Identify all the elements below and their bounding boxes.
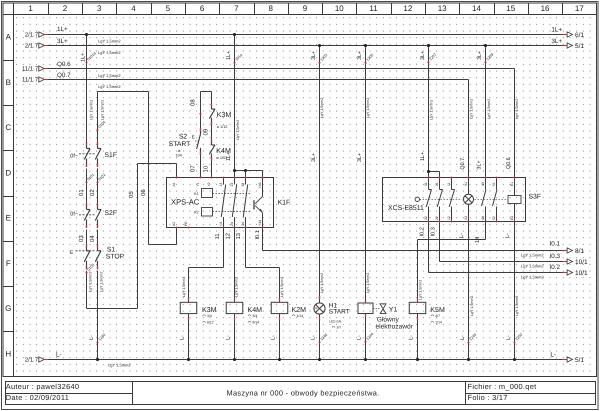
wire coil K5M to L- rail [409, 314, 420, 361]
svg-text:13: 13 [219, 183, 223, 187]
svg-text:Q0.6: Q0.6 [506, 157, 512, 169]
svg-text:S1: S1 [107, 247, 116, 254]
svg-text:LgY 1,5mm2: LgY 1,5mm2 [487, 99, 491, 119]
svg-text:S3F: S3F [529, 194, 541, 201]
svg-text:Y1: Y1 [196, 182, 200, 186]
svg-text:L-: L- [357, 335, 363, 340]
wire 3L+ drop to XCS contact 43 [476, 44, 494, 178]
svg-text:LgY 1,5mm2: LgY 1,5mm2 [418, 280, 422, 300]
svg-text:10/1: 10/1 [575, 270, 588, 277]
relay coil K1 inside XPS-AC [194, 189, 251, 198]
svg-text:S1F: S1F [105, 152, 117, 159]
svg-text:33: 33 [241, 183, 245, 187]
svg-text:XPS-AC: XPS-AC [171, 198, 200, 207]
contactor coil K2M [271, 302, 306, 318]
svg-text:6: 6 [200, 4, 205, 13]
wire L- from E2 to L- rail [505, 222, 524, 362]
svg-text:Y2: Y2 [207, 182, 211, 186]
svg-text:LgY 1,5mm2: LgY 1,5mm2 [108, 363, 131, 368]
svg-text:E: E [192, 134, 195, 139]
svg-text:LgY 1,5mm2: LgY 1,5mm2 [98, 73, 121, 78]
svg-text:I0.3: I0.3 [431, 227, 437, 236]
svg-text:LgY 1,5mm2: LgY 1,5mm2 [515, 296, 519, 316]
svg-text:LgY 1,5mm2: LgY 1,5mm2 [521, 275, 544, 280]
svg-text:8/1: 8/1 [575, 248, 584, 255]
node I0.1 folio reference 8/1 [563, 248, 585, 255]
svg-text:02: 02 [89, 189, 96, 196]
svg-text:L-: L- [311, 335, 317, 340]
svg-text:K5M: K5M [430, 306, 445, 314]
svg-text:K4M: K4M [248, 306, 263, 314]
svg-text:LgY 1,5mm2: LgY 1,5mm2 [429, 100, 433, 120]
node L- folio reference 2/1.7 left [25, 357, 47, 364]
svg-text:LgY 1,5mm2: LgY 1,5mm2 [236, 120, 240, 140]
node 3L+ folio reference 2/1.7 left [25, 43, 47, 50]
wire 1L+ rail [47, 26, 562, 43]
svg-text:LgY 1,5mm2: LgY 1,5mm2 [98, 50, 121, 55]
svg-text:1L+: 1L+ [551, 27, 562, 34]
svg-text:LgY 1,5mm2: LgY 1,5mm2 [470, 99, 474, 119]
svg-text:Maszyna nr 000 - obwody bezpie: Maszyna nr 000 - obwody bezpieczeństwa. [226, 389, 379, 398]
svg-text:A: A [6, 33, 12, 42]
NO contact 43-44 inside XCS [481, 178, 486, 222]
svg-text:I0.1: I0.1 [549, 241, 560, 248]
svg-text:10: 10 [202, 165, 209, 172]
svg-text:3/7: 3/7 [337, 326, 342, 330]
svg-text:31: 31 [424, 182, 428, 186]
start button S2 START (NO) [169, 128, 201, 157]
svg-text:3L+: 3L+ [357, 153, 363, 162]
svg-text:04: 04 [89, 235, 96, 242]
svg-text:F: F [6, 259, 11, 268]
svg-text:LgY 1,5mm2: LgY 1,5mm2 [521, 264, 544, 269]
svg-text:22: 22 [435, 216, 439, 220]
node L- folio reference 5/1 right [550, 351, 584, 364]
svg-text:7: 7 [234, 4, 239, 13]
svg-text:Q0.7: Q0.7 [57, 72, 71, 79]
svg-text:L-: L- [409, 335, 415, 340]
svg-text:12: 12 [403, 4, 412, 13]
svg-text:H: H [5, 349, 11, 358]
wire 05 from S1 to terminal A1 [85, 164, 176, 309]
wire from S1 channel 2 to L- rail [89, 271, 106, 361]
svg-text:LgY 1,5mm2: LgY 1,5mm2 [320, 98, 324, 118]
safety relay K1F XPS-AC [167, 178, 274, 228]
svg-text:11: 11 [215, 233, 221, 239]
wire 04 [89, 230, 98, 245]
node I0.2 folio reference 10/1 [563, 270, 589, 277]
svg-text:L-: L- [459, 233, 465, 238]
svg-text:3L+: 3L+ [57, 38, 68, 45]
svg-text:I0.1: I0.1 [255, 230, 261, 239]
svg-text:LgY 1,5mm2: LgY 1,5mm2 [100, 100, 104, 120]
svg-text:1L+: 1L+ [226, 152, 232, 161]
wire L- from X2 to L- rail [459, 222, 478, 362]
svg-text:3L+: 3L+ [476, 160, 482, 169]
svg-text:51: 51 [492, 182, 496, 186]
wire 13 from terminal 34 to coil K2M [236, 228, 284, 303]
svg-text:3/4: 3/4 [253, 314, 258, 318]
svg-text:13: 13 [236, 233, 242, 239]
svg-text:Folio : 3/17: Folio : 3/17 [468, 393, 508, 402]
svg-text:LgY 1,5mm2: LgY 1,5mm2 [98, 38, 121, 43]
svg-text:E2: E2 [510, 216, 514, 220]
svg-text:52: 52 [492, 216, 496, 220]
wire 08 (start loop upper link) [190, 92, 212, 129]
svg-text:14: 14 [472, 4, 481, 13]
svg-text:LgY 1,5mm2: LgY 1,5mm2 [88, 272, 92, 292]
wire Q0.6 drop to XCS E1 [506, 69, 519, 178]
svg-text:LgY 1,5mm2: LgY 1,5mm2 [366, 98, 370, 118]
contactor coil K5M [409, 302, 445, 324]
relay coil K2 inside XPS-AC [194, 208, 251, 217]
wire 02 [89, 169, 106, 204]
svg-text:1L+: 1L+ [226, 51, 232, 60]
svg-text:15: 15 [506, 4, 515, 13]
wire 3L+ drop to lamp H1 [311, 44, 328, 303]
svg-text:1: 1 [28, 4, 33, 13]
svg-text:44: 44 [481, 216, 485, 220]
safety contact 13-14 inside XPS-AC [219, 178, 226, 228]
svg-text:2: 2 [63, 4, 68, 13]
svg-text:L-: L- [180, 335, 186, 340]
svg-text:⌀ 1/12: ⌀ 1/12 [217, 125, 228, 129]
label K1F [278, 200, 291, 207]
wire 10 from K4M to terminal Y2 [202, 161, 211, 178]
svg-text:L-: L- [56, 351, 62, 358]
svg-text:3L+: 3L+ [311, 51, 317, 60]
svg-text:L-: L- [460, 335, 466, 340]
wire I0.1 from Y44 to folio 8/1 [263, 228, 563, 258]
svg-text:B: B [6, 78, 11, 87]
solenoid valve Y1 Glowny elektrozawor [358, 303, 414, 331]
wire I0.2 vertical label [419, 227, 425, 236]
NC contact 21-22 inside XCS [435, 178, 443, 222]
wire 07 from S2 to terminal Y1 [190, 155, 201, 178]
svg-text:8/12: 8/12 [207, 321, 214, 325]
svg-text:S2: S2 [179, 134, 188, 141]
svg-text:STOP: STOP [106, 254, 125, 261]
wire 11 from terminal 14 to coil K3M [182, 228, 223, 303]
svg-text:2/1.7: 2/1.7 [25, 357, 39, 364]
key actuator inside XCS [415, 197, 507, 201]
svg-text:24: 24 [230, 222, 234, 226]
svg-text:2/1.7: 2/1.7 [25, 43, 39, 50]
svg-text:X2: X2 [464, 216, 468, 220]
svg-text:LgY 1,5mm2: LgY 1,5mm2 [366, 273, 370, 293]
svg-text:Fichier : m_000.qet: Fichier : m_000.qet [468, 382, 537, 391]
svg-text:LgY 1,5mm2: LgY 1,5mm2 [98, 84, 121, 89]
svg-text:0f~: 0f~ [70, 211, 78, 217]
svg-text:Auteur : pawel32640: Auteur : pawel32640 [6, 382, 80, 391]
svg-text:8: 8 [268, 4, 273, 13]
wire 12 from terminal 24 to coil K4M [226, 228, 239, 303]
svg-text:I0.2: I0.2 [549, 264, 560, 271]
node 3L+ folio reference 5/1 right [551, 38, 584, 50]
svg-text:L-: L- [505, 233, 511, 238]
svg-text:13: 13 [438, 4, 447, 13]
wire solenoid Y1 to L- rail [357, 314, 375, 362]
svg-text:X1: X1 [464, 182, 468, 186]
svg-text:E1: E1 [510, 182, 514, 186]
wire lamp H1 to L- rail [311, 314, 329, 361]
svg-text:3L+: 3L+ [551, 38, 562, 45]
svg-text:K3M: K3M [217, 111, 232, 119]
svg-text:1/14: 1/14 [435, 321, 442, 325]
svg-text:01: 01 [78, 189, 85, 196]
svg-text:LgY 1,5mm2: LgY 1,5mm2 [320, 273, 324, 293]
safety switch S3F XCS-E8511 [383, 178, 526, 222]
svg-text:S2F: S2F [105, 210, 117, 217]
stop button S1 STOP (2 NC contacts) [70, 244, 125, 269]
wire 03 [78, 230, 87, 245]
svg-text:104: 104 [176, 154, 182, 158]
node 1L+ folio reference 2/1.7 left [25, 32, 47, 39]
svg-text:16: 16 [541, 4, 550, 13]
svg-text:L-: L- [506, 335, 512, 340]
svg-text:A1: A1 [172, 182, 176, 186]
wire 3L+ drop to solenoid valve Y1 [357, 44, 374, 303]
wire Q0.7 rail [47, 72, 468, 89]
svg-text:3L+: 3L+ [420, 51, 426, 60]
svg-text:LgY 1,5mm2: LgY 1,5mm2 [280, 277, 284, 297]
svg-text:3L+: 3L+ [357, 51, 363, 60]
svg-text:08: 08 [190, 99, 197, 106]
svg-text:LED GN: LED GN [329, 319, 342, 323]
svg-text:8/14: 8/14 [253, 321, 260, 325]
svg-text:11: 11 [447, 182, 451, 186]
wire coil K2M to L- rail [271, 314, 282, 361]
svg-text:9: 9 [303, 4, 308, 13]
wire 1L+ drop to XPS-AC terminals 23/33/Y43 [226, 33, 263, 178]
svg-text:5/1: 5/1 [575, 357, 584, 364]
NC aux contact K4M [209, 140, 231, 161]
wire L- rail [47, 351, 562, 367]
svg-text:LgY 1,5mm2: LgY 1,5mm2 [515, 99, 519, 119]
wire 3L+ drop to XCS terminals 31/21 [420, 44, 440, 178]
wire 14 from XCS contact 44 to coil K5M [418, 222, 486, 303]
svg-text:K2M: K2M [292, 306, 307, 314]
svg-text:LgY 1,5mm2: LgY 1,5mm2 [470, 296, 474, 316]
wire I0.3 from terminal 22 to folio 10/1 [440, 222, 563, 269]
NO contact 51-52 inside XCS [492, 178, 497, 222]
svg-text:17: 17 [575, 4, 584, 13]
node I0.3 folio reference 10/1 [563, 259, 589, 266]
svg-text:07: 07 [190, 165, 197, 172]
svg-text:3: 3 [97, 4, 102, 13]
svg-text:11: 11 [369, 4, 378, 13]
svg-text:3L+: 3L+ [477, 51, 483, 60]
svg-text:C: C [5, 123, 11, 132]
svg-text:PE: PE [184, 221, 188, 226]
svg-text:LgY 1,5mm2: LgY 1,5mm2 [521, 253, 544, 258]
contactor coil K3M [180, 302, 216, 324]
svg-text:Y44: Y44 [258, 220, 262, 226]
node Q0.6 folio reference 11/1.7 left [22, 66, 47, 73]
svg-text:L-: L- [271, 335, 277, 340]
svg-text:34: 34 [241, 222, 245, 226]
solenoid E1-E2 inside XCS [508, 178, 521, 222]
svg-text:START: START [329, 309, 350, 316]
svg-text:1L+: 1L+ [420, 152, 426, 161]
svg-text:05: 05 [128, 191, 135, 198]
svg-text:L-: L- [89, 335, 95, 340]
wire 3L+ rail [47, 38, 562, 55]
label S3F [529, 194, 541, 201]
wire 06 from S1F channel 2 to terminal A2 [96, 92, 176, 245]
svg-text:K2: K2 [194, 210, 199, 214]
indicator lamp H1 START [314, 296, 350, 330]
terminals of XPS-AC [172, 176, 264, 228]
svg-text:G: G [5, 304, 11, 313]
svg-text:43: 43 [481, 182, 485, 186]
NC aux contact K3M [209, 92, 231, 130]
wire I0.3 vertical label [431, 227, 437, 236]
svg-text:5: 5 [166, 4, 171, 13]
wire 1L+ drop to S1F channel 1 [81, 33, 98, 142]
terminals of XCS-E8511 [427, 176, 515, 222]
wire Q0.6 rail [47, 61, 514, 78]
svg-text:03: 03 [78, 235, 85, 242]
svg-text:3L+: 3L+ [311, 153, 317, 162]
svg-text:4/7: 4/7 [435, 314, 440, 318]
svg-text:L-: L- [226, 335, 232, 340]
svg-text:10/1: 10/1 [575, 259, 588, 266]
svg-text:2/1.7: 2/1.7 [25, 32, 39, 39]
wire 01 [78, 169, 95, 204]
wire I0.1 vertical label [255, 230, 261, 239]
svg-text:06: 06 [140, 189, 147, 196]
svg-text:Y1: Y1 [389, 307, 398, 314]
svg-text:LgY 1,5mm2: LgY 1,5mm2 [235, 277, 239, 297]
svg-text:6/1: 6/1 [575, 32, 584, 39]
svg-text:1L+: 1L+ [57, 26, 68, 33]
node Q0.7 folio reference 11/1.7 left [22, 77, 47, 84]
NC contact 31-32 inside XCS [424, 178, 432, 222]
svg-text:21: 21 [435, 182, 439, 186]
svg-text:09: 09 [203, 128, 210, 135]
svg-text:14: 14 [475, 237, 481, 243]
svg-text:14: 14 [219, 222, 223, 226]
node 1L+ folio reference 6/1 right [551, 27, 584, 39]
svg-text:Y43: Y43 [258, 182, 262, 188]
svg-text:Główny: Główny [377, 316, 400, 323]
svg-text:I0.2: I0.2 [419, 227, 425, 236]
svg-text:elektrozawór: elektrozawór [376, 324, 414, 331]
limit switch S1F (2 NC contacts) [70, 142, 117, 167]
svg-text:12: 12 [447, 216, 451, 220]
wire coil K4M to L- rail [226, 314, 237, 361]
svg-text:1L+: 1L+ [81, 53, 87, 62]
svg-text:0f~: 0f~ [70, 153, 78, 159]
transistor output Y43-Y44 inside XPS-AC [254, 178, 263, 228]
svg-text:Q0.6: Q0.6 [57, 61, 71, 68]
svg-text:K1: K1 [194, 192, 199, 196]
indicator lamp X1-X2 inside XCS [464, 178, 474, 222]
svg-text:4: 4 [131, 4, 136, 13]
svg-text:A2: A2 [172, 222, 176, 226]
wire I0.2 from terminal 32 to folio 10/1 [429, 222, 563, 280]
svg-text:11/1.7: 11/1.7 [22, 77, 39, 84]
svg-text:10: 10 [335, 4, 344, 13]
svg-text:12: 12 [226, 233, 232, 239]
safety contact 33-34 inside XPS-AC [241, 178, 248, 228]
svg-text:32: 32 [424, 216, 428, 220]
svg-text:K3M: K3M [202, 306, 217, 314]
svg-text:23: 23 [230, 183, 234, 187]
svg-text:K1F: K1F [278, 200, 291, 207]
limit switch S2F (2 NC contacts) [70, 203, 117, 228]
svg-text:LgY 1,5mm2: LgY 1,5mm2 [99, 272, 103, 292]
safety contact 23-24 inside XPS-AC [230, 178, 237, 228]
svg-text:LgY 1,5mm2: LgY 1,5mm2 [182, 277, 186, 297]
contactor coil K4M [226, 302, 262, 324]
svg-text:D: D [5, 168, 11, 177]
NC contact 11-12 inside XCS [447, 178, 455, 222]
svg-text:L-: L- [550, 351, 556, 358]
wire coil K3M to L- rail [180, 314, 191, 361]
svg-text:Date : 02/09/2011: Date : 02/09/2011 [6, 393, 69, 402]
svg-text:I0.3: I0.3 [549, 253, 560, 260]
svg-text:11/1.7: 11/1.7 [22, 66, 39, 73]
svg-text:LgY 1,5mm2: LgY 1,5mm2 [89, 100, 93, 120]
svg-text:3/4: 3/4 [207, 314, 212, 318]
svg-text:Q0.7: Q0.7 [460, 158, 466, 170]
svg-text:E: E [6, 214, 11, 223]
svg-text:5/1: 5/1 [575, 43, 584, 50]
wire Q0.7 drop to lamp X1 of XCS [460, 80, 474, 178]
svg-text:1/14: 1/14 [297, 314, 304, 318]
wire 09 [203, 125, 212, 140]
svg-text:XCS-E8511: XCS-E8511 [388, 205, 424, 212]
svg-text:START: START [169, 141, 191, 148]
